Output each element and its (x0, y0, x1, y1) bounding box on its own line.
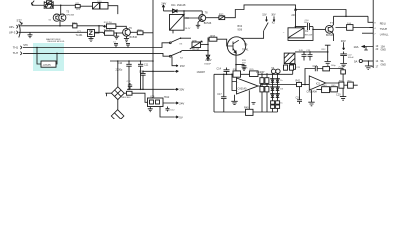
svg-text:9O6: 9O6 (238, 28, 243, 31)
svg-text:B80C800: B80C800 (122, 97, 132, 99)
svg-text:1N4007: 1N4007 (256, 71, 265, 74)
ground T6 (124, 36, 129, 41)
op-amp IC CA3140 (237, 78, 259, 94)
svg-text:GND: GND (381, 63, 387, 66)
resistor chain 1 (261, 74, 263, 112)
contact K3b (169, 55, 171, 57)
potentiometer P5 (36, 47, 38, 49)
ground UP- net (28, 32, 33, 37)
wire mid rail (110, 60, 153, 62)
wire parallel block (44, 1, 53, 9)
transistor T8 (201, 11, 203, 15)
wire K2 to T9 (237, 31, 264, 39)
svg-text:BC546: BC546 (204, 22, 212, 25)
svg-text:ST7: ST7 (17, 18, 23, 22)
svg-text:REGLER MODUL: REGLER MODUL (48, 41, 66, 43)
pin RE/LI (368, 16, 373, 22)
bottom rail (214, 111, 278, 113)
connector bracket ST7 (19, 24, 20, 37)
svg-text:24V: 24V (291, 14, 296, 17)
mid rail right (295, 51, 328, 53)
svg-text:7812: 7812 (164, 96, 170, 99)
ground IC4 (148, 107, 153, 112)
svg-text:BF245B: BF245B (66, 15, 74, 17)
connector bus right (372, 0, 374, 68)
capacitor C22 (340, 52, 347, 64)
ground opamp2 (308, 90, 314, 106)
capacitor D12 (166, 107, 170, 112)
svg-text:BC546: BC546 (326, 34, 334, 37)
feedback loop (305, 69, 315, 85)
svg-text:TH1: TH1 (13, 46, 19, 50)
supply rail 30V (127, 88, 178, 90)
wire to R21 (53, 4, 75, 6)
transistor T7 (313, 28, 325, 30)
svg-text:21,6V: 21,6V (205, 59, 212, 62)
highlight region (33, 43, 64, 71)
svg-text:15V: 15V (262, 14, 267, 17)
supply arrow 24V mid (162, 5, 164, 11)
svg-text:TS/UH: TS/UH (380, 28, 388, 31)
svg-text:1N4DF: 1N4DF (204, 64, 211, 66)
svg-text:BC546: BC546 (130, 36, 138, 39)
K2 loop (288, 27, 313, 41)
svg-text:RE/LI: RE/LI (380, 22, 386, 25)
svg-text:CA3140: CA3140 (238, 87, 247, 90)
wire T9 emitter (235, 53, 237, 74)
ground T8 (196, 25, 200, 28)
svg-text:UP-3: UP-3 (9, 31, 16, 35)
wire ST7 top entry (31, 1, 44, 6)
wire 24V rail right (296, 10, 347, 17)
floating cap (252, 103, 256, 105)
svg-text:24V: 24V (161, 2, 166, 6)
ST7 pointer (20, 22, 23, 25)
svg-text:30V: 30V (271, 14, 276, 17)
svg-text:T9: T9 (244, 43, 248, 47)
pin TS/UH (370, 27, 374, 29)
svg-text:100n: 100n (304, 22, 310, 24)
pin U-RALL (362, 32, 373, 34)
AC input lead (105, 93, 111, 96)
svg-text:GND: GND (381, 49, 387, 52)
svg-text:C14: C14 (217, 67, 222, 70)
ground output (340, 88, 346, 100)
svg-text:TH7: TH7 (13, 51, 19, 55)
capacitor C11 (138, 61, 143, 89)
svg-text:TL431: TL431 (76, 34, 84, 37)
svg-text:5V: 5V (179, 115, 183, 119)
svg-text:30V: 30V (179, 88, 184, 92)
transistor T9 (227, 37, 245, 55)
diode chain 3 (272, 74, 274, 112)
IC1 TL431 (95, 26, 100, 33)
ground R25 (114, 33, 119, 39)
svg-text:1N4007: 1N4007 (197, 71, 206, 74)
wire UP+ net (77, 25, 103, 27)
bridge rectifier B1 (111, 87, 124, 100)
output wire opamp2 (326, 82, 343, 84)
wire to contact K2 (225, 5, 296, 28)
svg-text:-CH-P5: -CH-P5 (43, 64, 52, 67)
svg-text:C11: C11 (144, 63, 149, 66)
contact K3a (169, 42, 171, 44)
mini boxes below hatch (284, 65, 288, 70)
bridge rectifier B2 (117, 100, 119, 110)
ground right (365, 61, 372, 70)
svg-text:1N: 1N (280, 89, 283, 91)
svg-text:24V: 24V (179, 101, 184, 105)
svg-text:5A: 5A (354, 59, 358, 63)
svg-text:TIP41: TIP41 (242, 48, 249, 51)
relay K2 (288, 28, 304, 38)
svg-text:C20: C20 (336, 93, 341, 96)
svg-text:D11: D11 (171, 4, 176, 7)
svg-text:15V: 15V (180, 64, 185, 68)
output wire opamp1 (258, 85, 297, 87)
zener branch (206, 38, 210, 62)
svg-text:REL1W: REL1W (305, 35, 313, 37)
top rail opamp section (214, 74, 293, 112)
svg-text:1N4148: 1N4148 (177, 4, 186, 7)
supply arrow 15V (143, 70, 178, 72)
T symbol mid right (325, 45, 331, 52)
svg-text:IC5: IC5 (316, 82, 320, 85)
fuse on DC lead (124, 92, 126, 94)
wire 15V tap (172, 57, 178, 67)
ground below opamp1 (231, 95, 237, 105)
wire vertical bus (152, 0, 154, 98)
svg-text:10A: 10A (354, 45, 359, 49)
capacitor C9 (44, 5, 53, 7)
svg-text:C10: C10 (118, 62, 123, 65)
collector rail to bus (334, 15, 369, 17)
svg-text:U-RALL: U-RALL (380, 34, 389, 37)
transistor T5 (60, 5, 62, 14)
svg-text:UP+: UP+ (9, 25, 15, 29)
transistor T6 (123, 28, 131, 36)
svg-text:2200u: 2200u (116, 69, 123, 72)
supply arrow 5V (160, 107, 178, 119)
relay K3 (183, 11, 185, 15)
svg-text:C17: C17 (217, 93, 222, 96)
diode chain 4 (277, 74, 279, 112)
ground IC1 (89, 37, 94, 42)
svg-text:RL2V: RL2V (185, 28, 191, 30)
ground mid (325, 52, 331, 65)
hatched box mid (284, 53, 295, 64)
resistor R20 (44, 1, 53, 3)
svg-text:100p: 100p (331, 65, 337, 67)
resistor chain 2 (266, 74, 268, 112)
op-amp IC5 (309, 76, 325, 90)
svg-text:ST9: ST9 (23, 44, 28, 47)
